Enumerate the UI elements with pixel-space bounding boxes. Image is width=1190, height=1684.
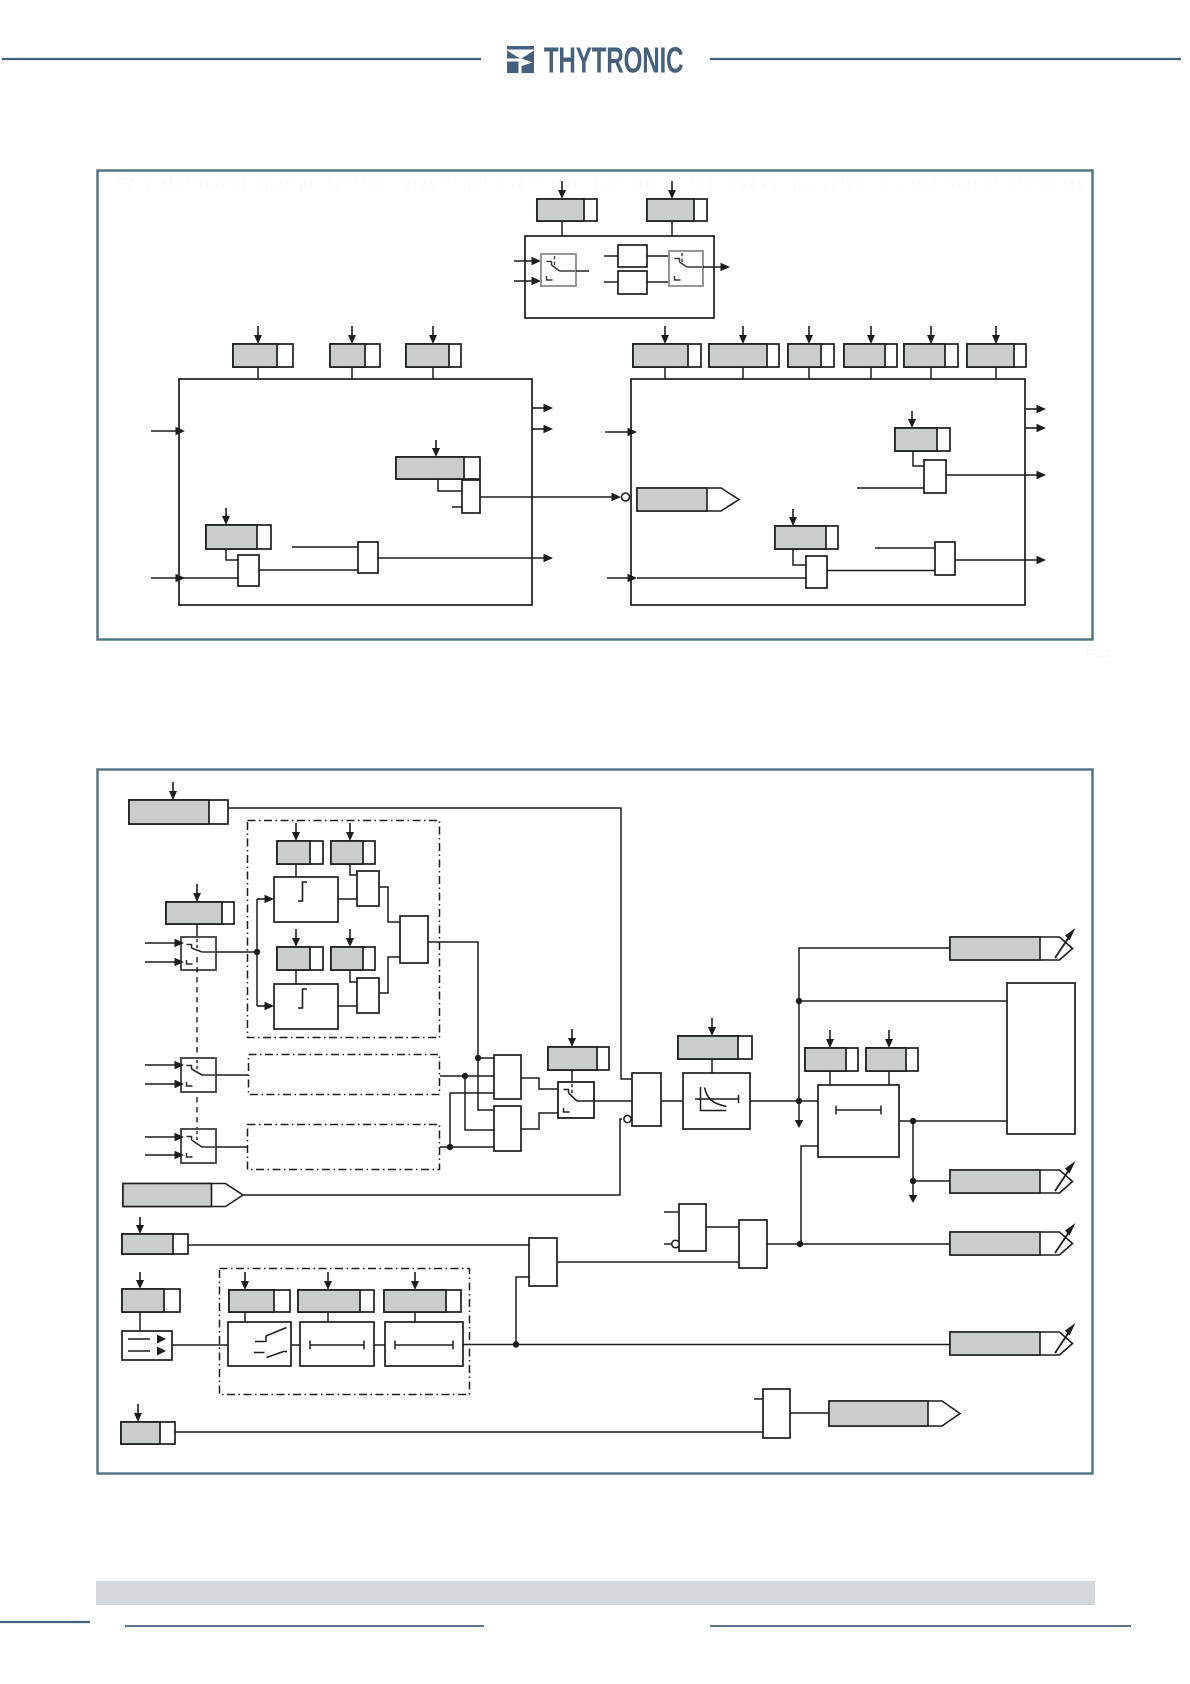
wire to matrix input [796,998,1007,1004]
param box G8 [298,1290,374,1312]
gate N2 [679,1204,706,1251]
wire D3 branch to T1 [450,1093,494,1147]
wire E to M [750,1098,818,1104]
wire input2 to WL1 [179,577,238,579]
input flag banner left [123,1184,243,1207]
switch S1 [181,937,216,970]
wire RB3 down [808,367,810,379]
param box P1 [537,199,597,221]
wire S3 to D3 [216,1146,247,1148]
param box RB3 [788,344,834,367]
output banner4 [950,1323,1076,1355]
param box SWP [548,1047,609,1070]
dangling arrow below banner2 junction [909,1181,918,1203]
wire RB1 down [664,367,666,379]
matrix rect [1007,983,1075,1134]
timer rect WL1 [238,555,259,586]
input arrow S3 b [145,1151,184,1160]
wire S2 to D2 [216,1074,248,1076]
output banner2 [950,1161,1076,1193]
output arrow rect1 a [532,404,553,413]
arrow into PB2 [348,326,356,344]
timer block E with curve [683,1073,750,1129]
param box C [122,1234,188,1254]
timer rect W10 [763,1389,790,1438]
stub SB1 output [576,270,589,272]
param box EP [678,1036,752,1059]
wire V1 to N3 [557,1261,739,1263]
wire W9 to banner4 [463,1341,950,1347]
output arrow rect1 b [532,425,553,434]
param box RB1 [633,344,701,367]
wire chain branch to V1 [516,1277,529,1345]
param box G2 [331,841,375,864]
switch S2 [181,1058,216,1092]
svg-text:F2.2 Multifunctional protectio: F2.2 Multifunctional protection relay fu… [116,176,1084,191]
step rect SR2 [274,984,338,1029]
arrow into E2 [134,1404,142,1422]
wire W7 to W8 [291,1344,300,1346]
arrow into A [169,782,177,800]
gate T1 [494,1055,521,1099]
ghost caption under box1 [1086,648,1111,660]
junction C1-T1 [475,1055,494,1061]
vertical wire from E-M junction up [799,948,950,1101]
arrow into GL1 [222,508,230,525]
arrow into G2 [346,823,354,841]
arrow into G7 [241,1272,249,1290]
footer rule mid [125,1625,484,1627]
output arrow rect2 d [955,556,1046,565]
stub into W10 [754,1398,763,1400]
wire G1 to SR1 [295,864,297,877]
arrow into C [136,1217,144,1234]
event box DA [122,1331,172,1360]
gate C1 [400,916,428,963]
arrow into GR2 [908,411,916,428]
arrow into RB3 [805,326,813,344]
wire G5 to M [829,1071,831,1085]
wire into MR2 [604,281,618,283]
param box GL1 [206,525,271,549]
param box RB5 [904,344,958,367]
stub wire into WL2 [292,546,358,548]
wire T1 to SW [521,1078,558,1089]
svg-text:THYTRONIC: THYTRONIC [544,40,684,81]
arrow into B [193,884,201,902]
wire N3 to banner3 [767,1241,950,1247]
arrow into G9 [411,1272,419,1290]
wire MR1 to SB2 [647,255,669,257]
wire EP to E [711,1059,713,1073]
output arrow rect1 c [378,554,553,563]
branch arrow into SR1 [257,895,274,952]
param box G3 [277,947,323,970]
timer rect WR3 [806,556,827,588]
wire RB4 down [870,367,872,379]
arrow into PB1 [254,326,262,344]
stub into WR4 [875,547,935,549]
wire G3 to SR2 [295,970,297,984]
arrow into RB5 [927,326,935,344]
wire T2 to SW [521,1113,558,1129]
dangling reset arrow below E-M wire [795,1101,804,1128]
wire WR3 to WR4 [827,570,935,572]
figure frame box2 [98,770,1093,1474]
wire C1 out [428,942,494,1110]
arrow into GR3 [789,509,797,526]
wire RB6 down [995,367,997,379]
wire N3 branch to M [801,1146,818,1244]
dash-dot rect D1 [248,821,440,1038]
wire SR1 to R1 [338,898,357,900]
output arrow rect2 b [1025,424,1046,433]
wire RB2 down [742,367,744,379]
contact rect W9 [385,1322,463,1366]
switch S3 [181,1129,216,1163]
wire R2 to C1 [379,957,400,993]
input arrow S2 b [145,1080,184,1089]
wire PB1 down [257,367,259,379]
wire SR2 to R2 [338,1005,357,1007]
wire junction to banner2 [910,1121,950,1184]
param box RB6 [967,344,1026,367]
wire A to N1 [228,808,632,1079]
select dashed line [196,957,198,1155]
timer rect WR2 [924,460,946,493]
param box PB1 [233,344,293,367]
arrow into RB1 [661,326,669,344]
mid rect MR1 [618,245,647,267]
timer rect V1 [529,1238,557,1286]
param box A [129,800,228,824]
contact rect W8 [300,1322,374,1366]
wire R1 to C1 [379,887,400,922]
arrow into SWP [568,1029,576,1047]
output arrow rect2 a [1025,405,1046,414]
arrow into G5 [826,1030,834,1048]
param box GR2 [895,428,950,451]
wire G6 to M [888,1071,890,1085]
wire W10 to banner5 [790,1412,829,1414]
wire GR1 to WR1 [438,479,462,491]
output banner1 [950,928,1076,960]
input arrow selector upper [514,257,541,266]
param box G6 [866,1048,918,1071]
header rule right [710,58,1181,60]
input arrow S2 a [145,1061,184,1070]
param box RB4 [844,344,897,367]
selector block frame [525,236,714,318]
param box GR1 [396,457,480,479]
wire N2 to N3 [706,1226,739,1228]
logo text THYTRONIC [544,40,684,81]
wire C to V1 [188,1244,529,1246]
output banner5 [829,1401,960,1426]
param box G4 [331,947,375,970]
arrow into D [136,1272,144,1289]
wire input to WR3 [637,577,806,579]
param box RB2 [709,344,779,367]
start flag banner in rect2 [637,488,739,511]
wire into MR1 [604,255,618,257]
wire GR2 to WR2 [913,451,924,466]
arrow into EP [708,1018,716,1036]
output arrow selector [703,263,730,272]
arrow into P1 [558,181,566,199]
dash-dot rect D2 [249,1055,440,1095]
wire DA to W7 [172,1344,228,1346]
arrow into RB6 [992,326,1000,344]
input arrow selector lower [514,277,541,286]
param box G1 [277,841,323,864]
param box G9 [384,1290,461,1312]
input arrow rect2 upper [605,428,637,437]
dash-dot rect D3 [248,1125,440,1170]
wire SW to N1 [594,1100,632,1102]
wire MR2 to SB2 [647,281,669,283]
wire D2 branch to T2 [465,1076,494,1130]
timer rect WR4 [935,542,955,575]
wire B to S1 [196,924,198,937]
input arrow S1 b [145,958,184,967]
small rect R2 [357,978,379,1013]
switch SB1 [541,254,576,286]
wire RB5 down [930,367,932,379]
arrow into RB4 [867,326,875,344]
wire banner to N1 negated [243,1115,631,1195]
header rule left [2,58,481,60]
small rect R1 [357,871,379,906]
footer rule right [710,1625,1131,1627]
gate T2 [494,1106,521,1151]
arrow into G3 [292,929,300,947]
switch SW [558,1082,594,1118]
wire WL1 to WL2 [259,569,358,571]
param box E2 [121,1422,175,1444]
contact rect W7 [228,1322,291,1366]
wire GL1 to WL1 [226,549,238,560]
stub into WR2 [857,487,924,489]
param box GR3 [775,526,838,549]
arrow into G4 [346,929,354,947]
wire G9 down [414,1312,416,1322]
ghost caption in box1 [116,176,1084,191]
stub into WR1 [452,506,462,508]
svg-text:F 2.2: F 2.2 [1086,648,1111,660]
branch arrow into SR2 [257,952,274,1010]
function block rect2 [631,379,1025,605]
wire D3 to T2 [440,1144,494,1150]
wire G2 to R1 [350,864,357,875]
wire WR1 to rect2 negated input [480,493,630,502]
bottom grey bar [96,1581,1095,1605]
param box G7 [229,1290,290,1312]
input arrow rect2 lower [607,574,637,583]
wire PB3 down [432,367,434,379]
arrow into RB2 [739,326,747,344]
wire G4 to R2 [350,970,357,982]
input arrow S3 a [145,1133,184,1142]
param box PB2 [330,344,380,367]
function block rect1 [179,379,532,605]
wire SWP to SW [571,1070,573,1082]
wire PB2 down [351,367,353,379]
wire W8 to W9 [374,1344,385,1346]
gate N1 [632,1073,661,1126]
wire G7 down [244,1312,246,1322]
wire G8 down [327,1312,329,1322]
wire S1 out [216,949,260,955]
timer rect WR1 [462,480,480,513]
output banner3 [950,1223,1076,1255]
wire GR3 to WR3 [793,549,806,565]
wire M out to matrix [899,1118,1007,1124]
stub N2 input b negated [664,1240,679,1248]
latch M [818,1085,899,1157]
stub N2 input a [664,1211,679,1213]
timer rect WL2 [358,542,378,573]
arrow into GR1 [432,440,440,457]
logo mark [507,46,534,73]
mid rect MR2 [618,271,647,294]
input arrow S1 a [145,939,184,948]
wire P2 to selector block [671,221,673,236]
param box D [122,1289,180,1312]
figure frame box1 [98,171,1093,640]
param box G5 [805,1048,858,1071]
param box B [166,902,234,924]
wire P1 to selector block [561,221,563,236]
arrow into PB3 [429,326,437,344]
param box P2 [647,199,707,221]
wire N1 to E [661,1100,683,1102]
dash-dot rect D4 [220,1269,470,1395]
param box PB3 [406,344,461,367]
footer rule left [0,1621,90,1623]
step rect SR1 [274,877,338,922]
wire D2 to T1 [440,1073,494,1079]
arrow into G6 [885,1030,893,1048]
arrow into P2 [668,181,676,199]
wire E2 to W10 [175,1431,763,1433]
output arrow rect2 c [946,471,1046,480]
arrow into G8 [324,1272,332,1290]
input arrow rect1 lower [151,574,185,583]
gate N3 [739,1220,767,1268]
switch SB2 [669,251,703,286]
arrow into G1 [292,823,300,841]
wire D to DA [139,1312,141,1331]
input arrow rect1 upper [151,427,185,436]
